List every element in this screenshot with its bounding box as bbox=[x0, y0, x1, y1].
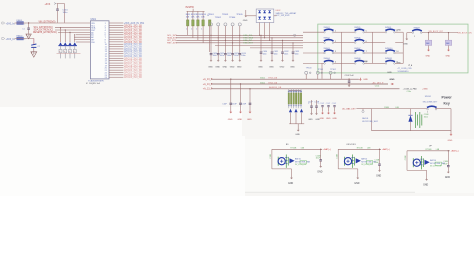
wire cap drop OK1/OK3 bbox=[379, 149, 381, 164]
wire 3V3 row bbox=[15, 39, 34, 45]
svg-text:1: 1 bbox=[427, 111, 428, 113]
resistor R614 bbox=[202, 11, 204, 20]
diode D1 TVS bbox=[59, 42, 62, 45]
wire pullup riser bbox=[192, 9, 194, 12]
wire col1 drop bbox=[321, 63, 323, 78]
wire array col 1 bbox=[259, 23, 261, 36]
resistor R at 448.5 bbox=[445, 40, 451, 45]
wire bottom VF bbox=[407, 169, 427, 171]
capacitor C630 bbox=[260, 52, 263, 53]
wire bat gnd OK1/OK3 bbox=[357, 169, 359, 176]
svg-text:+GND: +GND bbox=[421, 89, 428, 91]
svg-text:R10B: R10B bbox=[384, 107, 389, 109]
wire cap gnd OK1/OK3 bbox=[379, 165, 381, 169]
svg-text:GPIO09_3V3_SB: GPIO09_3V3_SB bbox=[124, 44, 142, 46]
wire gnd drop bank bbox=[297, 124, 299, 129]
wire sw right rail bbox=[371, 32, 373, 63]
svg-text:GND: GND bbox=[228, 119, 233, 121]
wire cap drop B1 bbox=[320, 149, 322, 159]
wire cap column 5 bbox=[239, 35, 241, 53]
svg-text:1: 1 bbox=[191, 29, 192, 31]
wire sw right link bbox=[334, 62, 342, 64]
battery plates VF bbox=[421, 156, 423, 169]
capacitor C10B VF bbox=[447, 166, 450, 167]
svg-text:C10B: C10B bbox=[336, 153, 338, 158]
white gap lower-left bbox=[0, 107, 242, 196]
wire pin24 right bbox=[109, 76, 123, 78]
wire sw right rail bbox=[402, 32, 404, 63]
wire VIN stub down bbox=[28, 23, 30, 28]
wire pullup rail bbox=[187, 10, 205, 12]
wire bottom B1 bbox=[272, 168, 292, 170]
diode D102 bbox=[294, 109, 297, 112]
svg-text:SW_DOME_KEY: SW_DOME_KEY bbox=[423, 101, 438, 103]
svg-text:GND: GND bbox=[258, 66, 263, 68]
svg-text:GPIO04_3V3_SB: GPIO04_3V3_SB bbox=[124, 32, 142, 34]
svg-text:SW_BOOT_INT: SW_BOOT_INT bbox=[429, 31, 444, 33]
wire pin13 right bbox=[109, 50, 123, 52]
diode array down 3 bbox=[268, 17, 271, 20]
wire sw608 right bbox=[422, 32, 458, 34]
switch box frame bbox=[318, 24, 468, 73]
wire col2 drop bbox=[341, 63, 343, 78]
svg-text:GND: GND bbox=[237, 66, 242, 68]
wire esd cap col 4 bbox=[292, 43, 294, 52]
ground input1 bbox=[26, 34, 31, 39]
diode D100 bbox=[408, 115, 412, 121]
ground bank bbox=[297, 129, 299, 130]
battery BT OK1/OK3 bbox=[344, 158, 351, 165]
svg-text:100n: 100n bbox=[284, 54, 288, 56]
svg-text:GND: GND bbox=[280, 66, 285, 68]
svg-text:GND: GND bbox=[390, 79, 395, 81]
ground mid 2 bbox=[240, 110, 242, 111]
svg-text:SW101: SW101 bbox=[425, 96, 431, 98]
svg-text:GPIO01_3V3_SB: GPIO01_3V3_SB bbox=[124, 25, 142, 27]
wire pin9 right bbox=[109, 41, 123, 43]
svg-text:x: x bbox=[73, 51, 74, 53]
ground bat B1 bbox=[291, 176, 293, 177]
ground esd cap 4 bbox=[292, 53, 294, 59]
wire stub row6 bbox=[74, 36, 90, 38]
ground mid 3 bbox=[249, 110, 251, 111]
wire sw left stub bbox=[372, 31, 385, 33]
wire cap column 1 bbox=[210, 35, 212, 53]
wire diode bottom bbox=[289, 123, 304, 125]
ground cap VF bbox=[447, 170, 449, 171]
wire pin1 right bbox=[109, 22, 123, 24]
svg-text:C10P: C10P bbox=[241, 104, 246, 106]
capacitor C621 bbox=[217, 54, 220, 55]
wire esd cap col 3 bbox=[282, 40, 284, 51]
svg-text:TP602: TP602 bbox=[215, 17, 222, 19]
svg-text:Power: Power bbox=[442, 96, 453, 100]
ground cap 3 bbox=[224, 55, 226, 59]
svg-text:C624: C624 bbox=[241, 53, 246, 55]
svg-text:GND: GND bbox=[403, 44, 408, 46]
svg-text:GND: GND bbox=[445, 177, 450, 179]
capacitor C616 bbox=[56, 9, 59, 10]
diode array down 1 bbox=[258, 17, 261, 20]
wire cap gnd B1 bbox=[320, 161, 322, 165]
resistor RN10 bbox=[288, 89, 290, 93]
ferrite bead FB602 bbox=[17, 37, 24, 40]
svg-text:GND: GND bbox=[238, 119, 243, 121]
svg-text:SCL_EXTR(3V3C): SCL_EXTR(3V3C) bbox=[34, 27, 53, 29]
svg-text:GND: GND bbox=[397, 29, 402, 31]
svg-text:4T_CON5_CN5: 4T_CON5_CN5 bbox=[398, 68, 413, 70]
wire r to gnd bbox=[448, 46, 450, 49]
svg-text:100n: 100n bbox=[274, 54, 278, 56]
capacitor C10B B1 bbox=[319, 160, 322, 161]
svg-text:U602: U602 bbox=[276, 10, 282, 12]
svg-text:GPIO21_3V3_SB: GPIO21_3V3_SB bbox=[124, 72, 142, 74]
svg-text:GPIO15_3V3_SB: GPIO15_3V3_SB bbox=[124, 58, 142, 60]
svg-text:TP601: TP601 bbox=[208, 14, 215, 16]
wire mid bus1 bbox=[211, 78, 358, 80]
capacitor C10B OK1/OK3 bbox=[378, 164, 381, 165]
svg-text:C10B: C10B bbox=[270, 153, 272, 158]
svg-text:GPIO17_3V3_SB: GPIO17_3V3_SB bbox=[124, 63, 142, 65]
svg-text:INT_3V3: INT_3V3 bbox=[167, 40, 176, 42]
svg-text:3V3/PD: 3V3/PD bbox=[185, 6, 194, 9]
svg-text:GND: GND bbox=[364, 61, 369, 63]
wire bus SCL_3V3 bbox=[176, 34, 303, 36]
svg-text:TP605: TP605 bbox=[236, 14, 243, 16]
wire cap gnd VF bbox=[447, 167, 449, 171]
junction mid 3 bbox=[249, 88, 250, 89]
svg-text:ESD_INT: ESD_INT bbox=[244, 40, 253, 42]
svg-text:RST_3V3: RST_3V3 bbox=[167, 43, 177, 45]
svg-text:C621: C621 bbox=[220, 53, 225, 55]
wire sw right link bbox=[364, 62, 372, 64]
wire pin5 right bbox=[109, 31, 123, 33]
wire array col 3 bbox=[269, 23, 271, 41]
wire sw right link bbox=[395, 52, 403, 54]
svg-text:TP100: TP100 bbox=[306, 68, 312, 70]
svg-text:GND: GND bbox=[215, 66, 220, 68]
diode arrow VF bbox=[425, 160, 430, 165]
wire bus SDA_3V3 bbox=[176, 37, 303, 39]
svg-text:C633: C633 bbox=[295, 51, 300, 53]
wire sw left stub bbox=[342, 52, 355, 54]
svg-text:GPIO14_3V3_SB: GPIO14_3V3_SB bbox=[124, 56, 142, 58]
svg-text:GND: GND bbox=[354, 183, 359, 185]
wire pin22 right bbox=[109, 71, 123, 73]
wire bus line6 bbox=[250, 47, 303, 49]
junction c102 bbox=[348, 79, 349, 80]
wire esd cap col 2 bbox=[271, 38, 273, 52]
ground c111 bbox=[328, 111, 330, 112]
battery plates B1 bbox=[286, 155, 288, 168]
wire pin20 right bbox=[109, 67, 123, 69]
wire sw left stub bbox=[372, 62, 385, 64]
wire mid bus2 bbox=[211, 83, 388, 85]
svg-text:GPIO18_3V3_SB: GPIO18_3V3_SB bbox=[124, 65, 142, 67]
svg-text:C102 1nF: C102 1nF bbox=[345, 75, 355, 77]
wire bat det bbox=[356, 108, 371, 110]
svg-text:C10x: C10x bbox=[375, 85, 379, 87]
capacitor C623 bbox=[231, 54, 234, 55]
wire pin14 right bbox=[109, 53, 123, 55]
wire stub row5 bbox=[76, 34, 90, 36]
junction cap B1 bbox=[320, 149, 321, 150]
svg-text:GND: GND bbox=[363, 79, 368, 81]
junction cap OK1/OK3 bbox=[379, 149, 380, 150]
wire VIN row bbox=[15, 22, 91, 24]
wire sw right link bbox=[364, 52, 372, 54]
svg-text:C10x: C10x bbox=[407, 91, 411, 93]
svg-text:GPIO02_3V3_SB: GPIO02_3V3_SB bbox=[124, 28, 142, 30]
svg-text:100n: 100n bbox=[424, 116, 428, 118]
wire sw left stub bbox=[303, 31, 324, 33]
ground pair bbox=[311, 112, 313, 113]
svg-text:GND: GND bbox=[290, 66, 295, 68]
ferrite bead FB601 bbox=[17, 22, 24, 25]
wire pin6 right bbox=[109, 34, 123, 36]
label bank bottoms bbox=[288, 105, 290, 106]
svg-text:100n: 100n bbox=[213, 55, 217, 57]
svg-text:100n: 100n bbox=[295, 54, 299, 56]
ground c102 bbox=[348, 84, 350, 85]
capacitor pair right1 bbox=[310, 106, 313, 107]
wire to gnd bbox=[28, 29, 30, 34]
wire TVS column 2 bbox=[64, 30, 66, 42]
capacitor C631 bbox=[271, 52, 274, 53]
svg-text:C10B: C10B bbox=[424, 114, 429, 116]
svg-text:VIN: VIN bbox=[91, 23, 95, 25]
wire sw right link bbox=[395, 62, 403, 64]
wire cap column 3 bbox=[224, 40, 226, 53]
svg-text:ESD_RST: ESD_RST bbox=[244, 43, 254, 45]
svg-text:+5V0_In: +5V0_In bbox=[6, 24, 15, 26]
ground esd cap 2 bbox=[271, 53, 273, 59]
svg-text:100n: 100n bbox=[63, 12, 69, 14]
svg-text:RESETB_EXTR(3V3C): RESETB_EXTR(3V3C) bbox=[33, 32, 57, 34]
svg-text:GPIO22_3V3_SB: GPIO22_3V3_SB bbox=[124, 75, 142, 77]
capacitor C620 bbox=[210, 54, 213, 55]
svg-text:SW_BOOT_GN: SW_BOOT_GN bbox=[458, 32, 473, 34]
ground bus1 end bbox=[358, 78, 359, 80]
connector P1 +5V0 In bbox=[2, 22, 5, 24]
ground sw608 bbox=[406, 37, 408, 38]
wire mid drop 1 bbox=[230, 79, 232, 103]
svg-text:GPIO08_3V3_SB: GPIO08_3V3_SB bbox=[124, 42, 142, 44]
wire sw right link bbox=[334, 31, 342, 33]
wire sw right link bbox=[334, 52, 342, 54]
svg-text:+3V3: +3V3 bbox=[45, 3, 51, 6]
wire bat gnd VF bbox=[426, 170, 428, 177]
resistor R612 bbox=[192, 11, 194, 20]
svg-text:TP101: TP101 bbox=[318, 69, 324, 71]
svg-text:C1: C1 bbox=[22, 28, 24, 30]
capacitor pair right2 bbox=[315, 106, 318, 107]
svg-text:C10B: C10B bbox=[443, 161, 448, 163]
svg-text:1: 1 bbox=[414, 36, 415, 38]
ground cap 5 bbox=[239, 55, 241, 59]
resistor R601 bbox=[60, 46, 62, 50]
wire bh right gnd bbox=[450, 131, 452, 133]
resistor R611 bbox=[187, 11, 189, 20]
diode array U602 box bbox=[256, 9, 274, 23]
wire esd cap col 1 bbox=[260, 35, 262, 51]
wire TVS cathode bar bbox=[58, 45, 77, 47]
svg-text:GPIO07_3V3_SB: GPIO07_3V3_SB bbox=[124, 39, 142, 41]
diode D3 TVS bbox=[68, 42, 71, 45]
ground input2 bbox=[31, 52, 37, 57]
wire pulldown bbox=[428, 33, 430, 40]
wire pin18 right bbox=[109, 62, 123, 64]
junction sw608 a bbox=[428, 32, 429, 33]
capacitor C632 bbox=[281, 52, 284, 53]
bottom fragment bg bbox=[245, 139, 474, 193]
svg-text:GND: GND bbox=[208, 66, 213, 68]
svg-text:ESD_SCL: ESD_SCL bbox=[244, 35, 254, 37]
svg-text:1: 1 bbox=[14, 39, 15, 41]
svg-text:GND: GND bbox=[317, 172, 322, 174]
diode D101 bbox=[289, 109, 292, 112]
ground cap 2 bbox=[217, 55, 219, 59]
svg-text:BH101: BH101 bbox=[362, 118, 369, 120]
svg-text:RT10B: RT10B bbox=[290, 148, 297, 150]
wire sw right link bbox=[364, 42, 372, 44]
ground mid 1 bbox=[230, 110, 232, 111]
wire bank feed bbox=[289, 89, 301, 91]
svg-text:GND: GND bbox=[288, 183, 293, 185]
wire RESETB bbox=[58, 31, 90, 33]
wire TVS column 1 bbox=[60, 28, 62, 42]
resistor R604 bbox=[74, 46, 76, 50]
wire stub row7 bbox=[74, 39, 90, 41]
svg-text:RT10B: RT10B bbox=[357, 148, 364, 150]
wire mid bus3 bbox=[211, 88, 400, 90]
diode D4 TVS bbox=[73, 42, 76, 45]
svg-text:SOT_353_ESD: SOT_353_ESD bbox=[276, 15, 290, 17]
svg-text:C616: C616 bbox=[63, 10, 69, 12]
svg-text:x: x bbox=[69, 51, 70, 53]
svg-text:GND: GND bbox=[308, 119, 313, 121]
wire left B1 bbox=[271, 149, 273, 169]
wire cap to gnd bbox=[33, 48, 35, 52]
wire bat gnd B1 bbox=[291, 169, 293, 176]
label bank tops bbox=[288, 91, 290, 93]
svg-text:+BC_DET_P: +BC_DET_P bbox=[372, 83, 384, 85]
wire cap drop VF bbox=[447, 151, 449, 166]
svg-text:+3V3_In: +3V3_In bbox=[6, 39, 15, 41]
svg-text:GND: GND bbox=[223, 66, 228, 68]
svg-text:VIN_EXTR(5V0): VIN_EXTR(5V0) bbox=[39, 21, 56, 23]
wire mid drop 2 bbox=[240, 84, 242, 103]
wire pin3 right bbox=[109, 27, 123, 29]
capacitor C102 bbox=[348, 79, 350, 80]
svg-text:2: 2 bbox=[24, 39, 25, 41]
diode D103 bbox=[300, 109, 303, 112]
ground esd cap 1 bbox=[260, 53, 262, 59]
svg-text:SCL_3V3: SCL_3V3 bbox=[167, 35, 177, 37]
wire pin7 right bbox=[109, 36, 123, 38]
wire pin15 right bbox=[109, 55, 123, 57]
svg-text:100n: 100n bbox=[227, 55, 231, 57]
ground c110 bbox=[322, 111, 324, 112]
capacitor C624 bbox=[239, 54, 242, 55]
junction mid 2 bbox=[240, 83, 241, 84]
wire pin17 right bbox=[109, 60, 123, 62]
diode array up 1 bbox=[258, 11, 261, 14]
svg-text:GND: GND bbox=[448, 140, 453, 142]
svg-text:GND: GND bbox=[295, 134, 300, 136]
svg-text:100n: 100n bbox=[263, 54, 267, 56]
wire sw left stub bbox=[342, 42, 355, 44]
svg-text:OK1/OK3: OK1/OK3 bbox=[346, 144, 356, 146]
svg-text:1: 1 bbox=[14, 24, 15, 26]
svg-text:GND: GND bbox=[320, 118, 325, 120]
resistor RN13 bbox=[295, 89, 297, 93]
svg-text:GND: GND bbox=[269, 66, 274, 68]
svg-text:Key: Key bbox=[444, 102, 450, 106]
wire sw left stub bbox=[303, 42, 324, 44]
svg-text:x: x bbox=[64, 51, 65, 53]
svg-text:SCHMGE10: SCHMGE10 bbox=[398, 71, 410, 73]
terminal circle bbox=[362, 109, 364, 111]
wire bus line5 bbox=[215, 44, 303, 46]
wire bus RST_3V3 bbox=[176, 42, 303, 44]
svg-text:C620: C620 bbox=[213, 53, 218, 55]
svg-text:GPIO23_3V3_SB: GPIO23_3V3_SB bbox=[124, 77, 142, 79]
wire left OK1/OK3 bbox=[337, 149, 339, 169]
battery BT100 plates bbox=[416, 112, 422, 128]
svg-text:RT10B: RT10B bbox=[426, 149, 433, 151]
svg-text:TH13_DB: TH13_DB bbox=[268, 78, 277, 80]
svg-text:100n: 100n bbox=[234, 55, 238, 57]
svg-text:100n: 100n bbox=[220, 55, 224, 57]
wire sw left stub bbox=[372, 52, 385, 54]
svg-text:GPIO20_3V3_SB: GPIO20_3V3_SB bbox=[124, 70, 142, 72]
svg-text:GPIO19_3V3_SB: GPIO19_3V3_SB bbox=[124, 68, 142, 70]
wire pin12 right bbox=[109, 48, 123, 50]
svg-text:GPIO05_3V3_SB: GPIO05_3V3_SB bbox=[124, 35, 142, 37]
wire tp drops bbox=[305, 74, 307, 79]
capacitor C602 polarized bbox=[31, 44, 36, 47]
resistor RN12 bbox=[293, 89, 295, 93]
svg-text:GND: GND bbox=[446, 55, 451, 57]
wire sw left stub bbox=[303, 52, 324, 54]
wire bottom OK1/OK3 bbox=[338, 168, 358, 170]
svg-text:GPIO03_3V3_SB: GPIO03_3V3_SB bbox=[124, 30, 142, 32]
diode array down 2 bbox=[263, 17, 266, 20]
resistor R613 bbox=[197, 11, 199, 20]
wire top rail OK1/OK3 bbox=[338, 148, 381, 150]
wire pin21 right bbox=[109, 69, 123, 71]
resistor RN11 bbox=[290, 89, 292, 93]
wire pin2 right bbox=[109, 24, 123, 26]
wire SDA bbox=[55, 29, 90, 31]
node bus end bbox=[294, 34, 296, 36]
wire pin16 right bbox=[109, 57, 123, 59]
wire top rail VF bbox=[407, 150, 450, 152]
svg-text:100n: 100n bbox=[241, 55, 245, 57]
resistor RN14 bbox=[298, 89, 300, 93]
svg-text:C10P: C10P bbox=[222, 104, 227, 106]
ground cap 1 bbox=[210, 55, 212, 59]
wire sw left stub bbox=[303, 62, 324, 64]
wire +3V3 rail bbox=[57, 4, 65, 23]
svg-text:C632: C632 bbox=[284, 51, 289, 53]
wire top rail B1 bbox=[272, 148, 322, 150]
wire bus INT_3V3 bbox=[176, 39, 303, 41]
wire sw right link bbox=[395, 31, 403, 33]
wire cap column 2 bbox=[217, 38, 219, 53]
wire TVS column 4 bbox=[74, 35, 76, 42]
